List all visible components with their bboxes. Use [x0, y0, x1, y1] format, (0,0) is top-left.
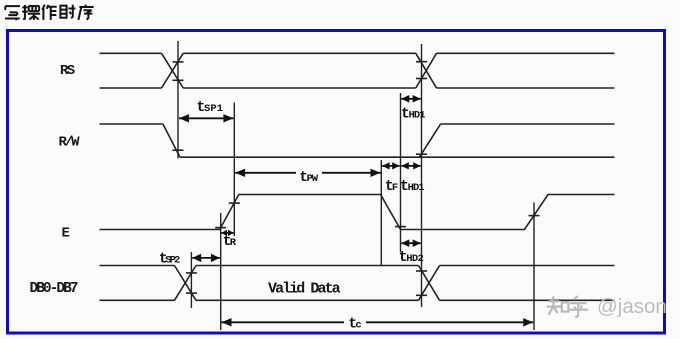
- R/W rising edge: [419, 124, 440, 157]
- measure line L5 x=381.3: [380, 160, 382, 266]
- ticks on L1 (RS X1, R/W fall): [173, 61, 184, 63]
- arrow tHD1 bottom: [401, 165, 420, 167]
- DB crossover X1: [175, 266, 197, 301]
- measure line L2 x=234.3: [233, 103, 235, 237]
- arrow tHD1 top: [401, 98, 420, 100]
- arrow tSP1: [179, 117, 233, 119]
- R/W waveform high rail: [100, 123, 163, 125]
- svg-text:@jason: @jason: [597, 295, 667, 318]
- svg-text:HD1: HD1: [408, 182, 425, 194]
- svg-text:E: E: [62, 226, 70, 242]
- R/W right high rail: [441, 123, 615, 125]
- svg-text:R/W: R/W: [59, 135, 81, 151]
- svg-text:PW: PW: [307, 173, 319, 185]
- arrow tR: [222, 232, 234, 234]
- E waveform: [100, 195, 615, 230]
- R/W falling edge: [163, 124, 180, 157]
- arrow tHD2: [401, 242, 420, 244]
- RS crossover X2: [416, 53, 437, 88]
- svg-text:DB0-DB7: DB0-DB7: [30, 281, 79, 297]
- arrow tPW: [235, 172, 296, 174]
- measure line L1 x=178: [177, 41, 179, 159]
- ticks on L4 (DB X1): [186, 272, 197, 274]
- svg-text:HD2: HD2: [406, 253, 424, 265]
- arrow tSP2: [192, 257, 220, 259]
- svg-text:SP2: SP2: [165, 255, 180, 267]
- arrow tF: [382, 165, 400, 167]
- svg-text:F: F: [392, 182, 398, 194]
- tick on L8 (E rise2): [529, 215, 540, 217]
- svg-text:RS: RS: [60, 63, 75, 79]
- measure line L4 x=191.4: [190, 252, 192, 308]
- measure line L3 x=220.7: [220, 213, 222, 330]
- measure line L8 x=534: [533, 203, 535, 331]
- tick on L3 (E rise foot): [215, 227, 226, 229]
- svg-text:HD1: HD1: [409, 110, 426, 122]
- arrow tc: [222, 321, 345, 323]
- measure line L6 x=400.5: [400, 93, 402, 253]
- ticks on L7 (RS X2, R/W rise, DB X2): [416, 61, 427, 63]
- DB crossover X2: [419, 266, 440, 301]
- RS crossover X1: [162, 53, 184, 88]
- watermark 知乎 @jason: [547, 296, 588, 317]
- svg-text:SP1: SP1: [204, 103, 223, 115]
- R/W low rail: [180, 156, 615, 158]
- svg-text:R: R: [230, 237, 237, 249]
- tick on L6 (E fall foot): [395, 226, 406, 228]
- RS waveform rails: [100, 53, 615, 88]
- svg-text:Valid Data: Valid Data: [268, 281, 341, 298]
- title 写操作时序: [5, 5, 94, 21]
- measure line L7 x=421.5: [421, 44, 423, 307]
- svg-text:c: c: [355, 320, 361, 332]
- DB0-DB7 rails: [100, 266, 615, 301]
- tick on L2 (E rise): [229, 202, 240, 204]
